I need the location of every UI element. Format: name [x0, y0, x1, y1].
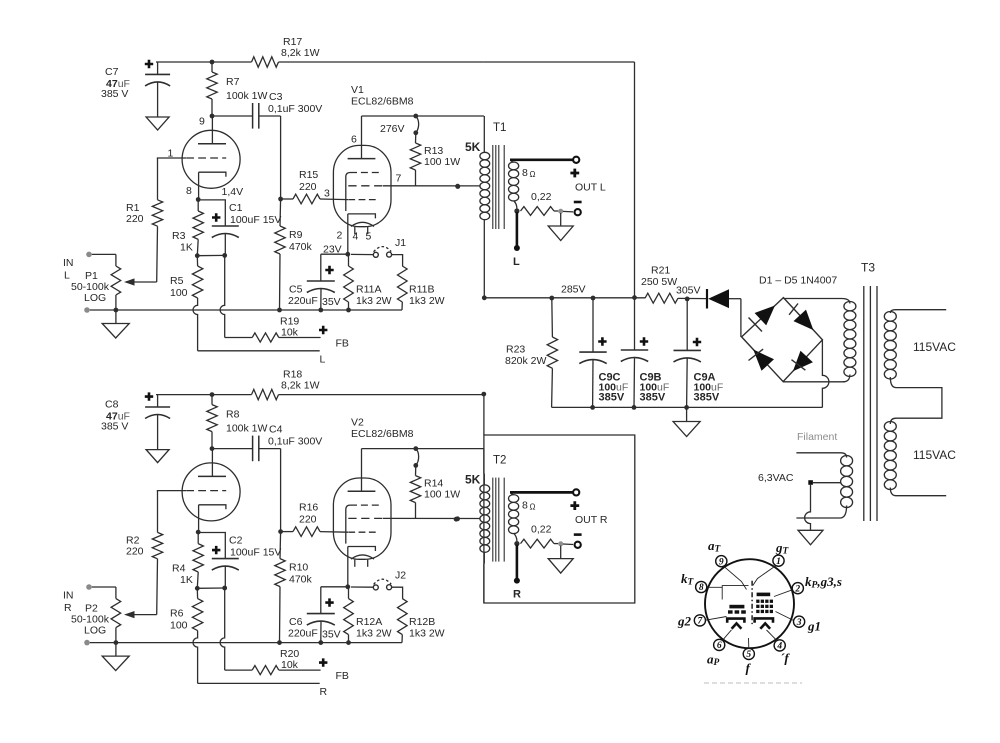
node C9C top [591, 296, 596, 301]
svg-text:0,22: 0,22 [531, 524, 552, 536]
wire bridge right corner to ground rail with hop [822, 340, 829, 408]
svg-text:1: 1 [168, 148, 174, 160]
svg-text:T1: T1 [493, 122, 506, 134]
pinout pin 5 [743, 648, 754, 659]
transformer T3 115VAC top winding [890, 310, 946, 313]
node C9B bottom [632, 405, 637, 410]
svg-text:5: 5 [366, 231, 372, 243]
svg-text:R9: R9 [289, 229, 303, 241]
svg-text:35V: 35V [322, 296, 341, 308]
svg-text:R5: R5 [170, 275, 184, 287]
wire tap down with hop [805, 485, 811, 531]
svg-text:OUT L: OUT L [575, 182, 606, 194]
svg-text:Filament: Filament [797, 431, 837, 443]
svg-text:8,2k 1W: 8,2k 1W [281, 380, 320, 392]
svg-text:C4: C4 [269, 424, 283, 436]
transformer T3 115VAC bottom winding [884, 422, 896, 432]
svg-text:220: 220 [126, 213, 144, 225]
bridge diode D3 low-left [753, 349, 774, 370]
svg-text:8,2k 1W: 8,2k 1W [281, 47, 320, 59]
wire (left edge T2 upper) [483, 449, 485, 474]
svg-text:1K: 1K [180, 574, 193, 586]
svg-text:R23: R23 [506, 344, 525, 356]
svg-text:5: 5 [746, 650, 751, 660]
pinout pentode cathode hat [755, 618, 773, 622]
svg-text:T2: T2 [493, 455, 506, 467]
wire to ground [686, 407, 688, 421]
svg-text:6,3VAC: 6,3VAC [758, 472, 794, 484]
svg-text:J2: J2 [395, 570, 406, 582]
svg-text:385V: 385V [694, 392, 720, 404]
svg-text:4: 4 [353, 231, 359, 243]
svg-text:250 5W: 250 5W [641, 276, 677, 288]
svg-text:IN: IN [63, 257, 74, 269]
svg-text:IN: IN [63, 590, 74, 602]
svg-text:100k 1W: 100k 1W [226, 423, 268, 435]
pinout pentode heater chevron [760, 623, 770, 628]
svg-text:100: 100 [170, 287, 188, 299]
resistor R23 leads [551, 298, 554, 337]
capacitor C9C [592, 298, 594, 352]
svg-text:L: L [64, 270, 70, 282]
svg-text:Ω: Ω [530, 503, 536, 512]
svg-text:R8: R8 [226, 409, 240, 421]
svg-text:FB: FB [336, 338, 349, 350]
svg-text:R3: R3 [172, 230, 186, 242]
svg-text:3: 3 [324, 188, 330, 200]
node C9A bottom [684, 405, 689, 410]
pinout pin 6 [714, 639, 725, 650]
bridge rectifier D1-D4 diamond [742, 298, 823, 382]
svg-text:R12A: R12A [356, 616, 382, 628]
svg-text:R4: R4 [172, 563, 186, 575]
svg-text:2: 2 [337, 230, 343, 242]
svg-text:385V: 385V [599, 392, 625, 404]
svg-text:0,1uF 300V: 0,1uF 300V [268, 436, 322, 448]
svg-text:C8: C8 [105, 399, 119, 411]
svg-text:R7: R7 [226, 76, 240, 88]
wire B+ rail down [634, 62, 636, 298]
wire T2 supply loop rectangle [484, 435, 635, 603]
svg-text:6: 6 [351, 134, 357, 146]
svg-text:g1: g1 [807, 619, 821, 634]
tick D4 [792, 360, 806, 371]
svg-text:R10: R10 [289, 562, 308, 574]
svg-text:LOG: LOG [84, 625, 106, 637]
svg-text:820k 2W: 820k 2W [505, 355, 547, 367]
svg-text:8: 8 [522, 167, 528, 179]
svg-text:R21: R21 [651, 265, 670, 277]
svg-text:C7: C7 [105, 66, 119, 78]
svg-text:100 1W: 100 1W [424, 156, 460, 168]
node R23 top [549, 296, 554, 301]
svg-text:R15: R15 [299, 169, 318, 181]
svg-text:5K: 5K [465, 473, 481, 487]
svg-text:D1 – D5 1N4007: D1 – D5 1N4007 [759, 275, 837, 287]
svg-text:2: 2 [794, 584, 800, 594]
wire B+ top to rail corner [484, 61, 635, 63]
svg-text:L: L [513, 256, 520, 268]
pinout pin 7 [694, 615, 705, 626]
svg-text:C2: C2 [229, 535, 243, 547]
pinout pin 8 [696, 581, 707, 592]
svg-text:23V: 23V [323, 244, 342, 256]
wire bridge bottom to T3 HV bottom [783, 381, 845, 383]
svg-text:385 V: 385 V [101, 421, 128, 433]
svg-text:1K: 1K [180, 242, 193, 254]
svg-text:385V: 385V [640, 392, 666, 404]
svg-text:LOG: LOG [84, 292, 106, 304]
svg-text:1k3 2W: 1k3 2W [409, 295, 445, 307]
pinout pentode top bar [757, 593, 771, 597]
wire plate line to T1 primary [483, 116, 485, 141]
svg-text:220uF: 220uF [288, 295, 318, 307]
wire tap to winding [813, 482, 841, 484]
svg-text:C1: C1 [229, 202, 243, 214]
svg-text:115VAC: 115VAC [913, 340, 956, 354]
transformer T3 HV winding [842, 299, 850, 304]
wire down to bridge left [740, 299, 742, 337]
ground filament [798, 530, 823, 545]
capacitor C9B [634, 298, 636, 350]
svg-text:305V: 305V [676, 285, 701, 297]
svg-text:J1: J1 [395, 237, 406, 249]
svg-text:220: 220 [299, 181, 317, 193]
svg-text:115VAC: 115VAC [913, 448, 956, 462]
svg-text:100uF 15V: 100uF 15V [230, 547, 281, 559]
ground main supply [673, 422, 700, 437]
svg-text:100 1W: 100 1W [424, 489, 460, 501]
pinout envelope circle [705, 559, 794, 648]
svg-text:OUT R: OUT R [575, 514, 608, 526]
tick D1 [749, 318, 763, 332]
svg-text:L: L [320, 354, 326, 366]
svg-text:0,1uF 300V: 0,1uF 300V [268, 103, 322, 115]
svg-text:6: 6 [717, 641, 722, 651]
pinout pin 3 [794, 616, 805, 627]
pinout pin 4 [774, 640, 785, 651]
svg-text:10k: 10k [281, 659, 299, 671]
pinout triode heater chevron [732, 623, 742, 628]
svg-text:8: 8 [522, 500, 528, 512]
svg-text:1,4V: 1,4V [222, 186, 244, 198]
svg-text:100uF 15V: 100uF 15V [230, 214, 281, 226]
svg-text:9: 9 [199, 116, 205, 128]
svg-text:Ω: Ω [530, 170, 536, 179]
pinout triode grid dashes [728, 610, 733, 613]
svg-text:C6: C6 [289, 616, 303, 628]
svg-text:385 V: 385 V [101, 88, 128, 100]
svg-text:10k: 10k [281, 327, 299, 339]
6.3VAC tap terminal [808, 480, 813, 485]
transformer T3 filament winding [796, 453, 846, 458]
svg-text:5K: 5K [465, 140, 481, 154]
svg-text:470k: 470k [289, 241, 313, 253]
svg-text:100k 1W: 100k 1W [226, 90, 268, 102]
svg-text:C3: C3 [269, 91, 283, 103]
svg-text:R6: R6 [170, 608, 184, 620]
pinout pentode grid dash rows [756, 600, 759, 603]
svg-text:ECL82/6BM8: ECL82/6BM8 [351, 96, 414, 108]
svg-text:220: 220 [126, 546, 144, 558]
bridge diode D2 up-right [794, 310, 814, 331]
pinout center dash-dot line [751, 581, 753, 624]
wire bridge top to T3 HV [783, 298, 842, 300]
node UL tap dot T2 [454, 517, 459, 522]
pinout faint underline [704, 682, 802, 684]
node UL tap dot T1 [455, 184, 460, 189]
svg-text:8: 8 [186, 185, 192, 197]
svg-text:220: 220 [299, 514, 317, 526]
svg-text:285V: 285V [561, 284, 586, 296]
svg-text:1k3 2W: 1k3 2W [356, 628, 392, 640]
pinout pin 1 [773, 555, 784, 566]
resistor R21 body [645, 293, 678, 303]
svg-text:100: 100 [170, 620, 188, 632]
svg-text:R11B: R11B [409, 284, 435, 296]
tick D2 [789, 304, 798, 315]
wire R18 junction down to T2 loop [483, 394, 485, 435]
pinout pin 2 [792, 583, 803, 594]
svg-text:1: 1 [776, 557, 781, 567]
svg-text:V2: V2 [351, 417, 364, 429]
svg-text:g2: g2 [677, 614, 692, 629]
svg-text:C5: C5 [289, 284, 303, 296]
svg-text:1k3 2W: 1k3 2W [409, 628, 445, 640]
capacitor C9A [686, 299, 688, 351]
node R18 to supply junction [481, 392, 486, 397]
svg-text:9: 9 [719, 557, 724, 567]
wire (left edge T2 lower) [483, 564, 485, 603]
svg-text:220uF: 220uF [288, 628, 318, 640]
pinout pin 9 [716, 556, 727, 567]
svg-text:35V: 35V [322, 629, 341, 641]
svg-text:8: 8 [699, 583, 704, 593]
node 285V at T1 [482, 295, 487, 300]
wire R21 to diode [678, 297, 707, 299]
svg-text:R: R [513, 589, 521, 601]
resistor R23 body [547, 337, 557, 368]
svg-text:R12B: R12B [409, 616, 435, 628]
bridge diode D4 low-right [793, 351, 813, 372]
wire ground rail [552, 406, 823, 408]
node C9C bottom [590, 405, 595, 410]
tick D3 [749, 349, 764, 360]
transformer T3 core [863, 286, 865, 521]
wire T1 primary bottom to 285V [483, 231, 485, 298]
svg-text:470k: 470k [289, 574, 313, 586]
svg-text:0,22: 0,22 [531, 191, 552, 203]
svg-text:276V: 276V [380, 123, 405, 135]
svg-text:1k3 2W: 1k3 2W [356, 295, 392, 307]
node 305V [685, 297, 690, 302]
node rail/C9B [632, 295, 637, 300]
svg-text:7: 7 [396, 173, 402, 185]
svg-text:R11A: R11A [356, 284, 382, 296]
svg-text:R16: R16 [299, 502, 318, 514]
svg-text:T3: T3 [861, 261, 875, 275]
pinout triode cathode hat [727, 619, 744, 623]
svg-text:R: R [64, 602, 72, 614]
diode D5 series [706, 289, 708, 309]
svg-text:R: R [320, 686, 328, 698]
pinout triode plate bar [729, 605, 744, 609]
svg-text:3: 3 [796, 618, 802, 628]
bridge diode D1 up-left [755, 306, 775, 326]
svg-text:V1: V1 [351, 84, 364, 96]
svg-text:ECL82/6BM8: ECL82/6BM8 [351, 428, 414, 440]
wire diode to bridge [729, 298, 741, 300]
pinout internal connection wires [753, 566, 776, 586]
svg-text:FB: FB [336, 670, 349, 682]
svg-text:kP,g3,s: kP,g3,s [805, 574, 842, 591]
wire 285V line [484, 297, 645, 299]
